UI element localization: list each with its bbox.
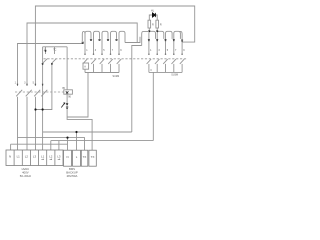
svg-text:TC: TC: [53, 48, 56, 51]
svg-text:5: 5: [103, 49, 105, 52]
svg-text:TX: TX: [83, 155, 87, 159]
svg-text:TX: TX: [91, 155, 95, 159]
svg-text:7: 7: [175, 49, 177, 52]
svg-text:L2: L2: [49, 154, 53, 158]
svg-text:9: 9: [183, 49, 185, 52]
svg-text:3: 3: [158, 49, 160, 52]
svg-text:28V/60A: 28V/60A: [67, 174, 78, 178]
svg-text:L2: L2: [25, 154, 29, 158]
svg-text:3: 3: [95, 49, 97, 52]
svg-text:1: 1: [150, 49, 152, 52]
svg-text:9: 9: [120, 49, 122, 52]
svg-text:SU3M: SU3M: [171, 73, 178, 76]
svg-text:96: 96: [68, 95, 71, 98]
svg-text:N: N: [9, 154, 11, 158]
svg-text:A: A: [84, 66, 86, 69]
svg-text:L1: L1: [17, 154, 21, 158]
svg-text:50–60Hz: 50–60Hz: [20, 174, 32, 178]
svg-text:1: 1: [15, 82, 17, 85]
svg-text:7: 7: [112, 49, 114, 52]
svg-text:5: 5: [33, 82, 35, 85]
svg-text:3: 3: [150, 69, 152, 72]
svg-text:R: R: [160, 23, 162, 26]
svg-text:L1: L1: [41, 154, 45, 158]
svg-text:HL: HL: [151, 10, 155, 13]
svg-text:5: 5: [167, 49, 169, 52]
svg-text:1: 1: [86, 49, 88, 52]
svg-text:L: L: [76, 155, 78, 159]
svg-text:R: R: [152, 23, 154, 26]
svg-text:3: 3: [24, 82, 26, 85]
svg-text:L3: L3: [57, 154, 61, 158]
svg-text:L3: L3: [33, 154, 37, 158]
svg-text:SU2M: SU2M: [113, 75, 120, 78]
svg-text:N: N: [66, 155, 68, 159]
